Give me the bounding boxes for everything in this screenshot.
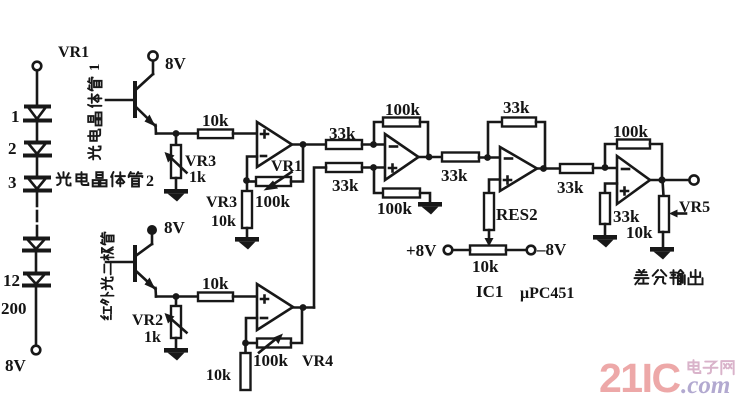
wire inverting input stub: [247, 157, 257, 181]
photodiode D4: [24, 239, 49, 251]
ground: [164, 189, 188, 202]
svg-text:8V: 8V: [5, 356, 27, 375]
svg-text:10k: 10k: [202, 111, 229, 130]
svg-text:VR3: VR3: [206, 194, 237, 211]
node junction: [173, 293, 180, 300]
resistor VR3 10k: [242, 182, 252, 237]
transistor Q2 photodiode input: [106, 225, 157, 297]
svg-text:VR4: VR4: [302, 353, 333, 370]
wire: [362, 143, 385, 146]
svg-text:.com: .com: [681, 372, 730, 399]
wire: [233, 295, 257, 298]
wire output U3: [537, 167, 560, 170]
op-amp U1b: [257, 284, 293, 330]
wire: [479, 156, 500, 159]
svg-text:2: 2: [8, 139, 17, 158]
wire: [362, 166, 385, 169]
resistor 33k upper: [326, 140, 362, 149]
wire output U1b: [293, 306, 314, 309]
svg-text:10k: 10k: [626, 223, 653, 242]
svg-text:VR3: VR3: [185, 153, 216, 170]
wire emitter: [156, 295, 198, 298]
wire output U2: [418, 156, 442, 159]
svg-text:1: 1: [87, 64, 103, 72]
svg-text:10k: 10k: [472, 257, 499, 276]
resistor 10k lower: [241, 345, 251, 390]
node junction: [242, 340, 249, 347]
svg-text:33k: 33k: [329, 124, 356, 143]
ground: [418, 202, 442, 215]
node junction: [300, 141, 307, 148]
svg-text:100k: 100k: [385, 100, 421, 119]
svg-text:33k: 33k: [332, 176, 359, 195]
node junction: [658, 176, 665, 183]
wire: [36, 157, 39, 176]
node junction: [602, 164, 609, 171]
resistor 10k: [198, 293, 233, 302]
terminal bottom-left 8V: [32, 346, 41, 355]
photodiode D3: [25, 178, 50, 191]
svg-text:21IC: 21IC: [599, 355, 680, 401]
label rotated 光电晶体管1: [87, 64, 103, 160]
wire: [36, 122, 39, 141]
resistor 100k to ground U2: [374, 169, 430, 202]
node junction: [540, 165, 547, 172]
wire: [36, 71, 39, 106]
resistor 33k after U3: [560, 164, 593, 173]
node junction: [426, 154, 433, 161]
resistor VR2 1k: [165, 297, 187, 349]
svg-text:1k: 1k: [189, 169, 206, 186]
resistor 33k lower: [326, 163, 362, 172]
svg-text:33k: 33k: [441, 166, 468, 185]
svg-text:2: 2: [146, 173, 154, 190]
svg-text:1: 1: [11, 107, 20, 126]
op-amp U1: [257, 122, 292, 167]
terminal -8V: [527, 246, 536, 255]
resistor 100k feedback U4: [605, 140, 662, 181]
svg-text:100k: 100k: [377, 199, 413, 218]
ground: [235, 237, 259, 250]
ground: [164, 348, 188, 361]
svg-text:8V: 8V: [164, 218, 186, 237]
resistor 33k to ground U4: [600, 184, 617, 236]
svg-text:100k: 100k: [613, 122, 649, 141]
resistor 100k VR4 feedback: [246, 308, 302, 353]
ground: [593, 235, 617, 248]
svg-text:12: 12: [3, 271, 20, 290]
svg-text:+8V: +8V: [406, 241, 437, 260]
resistor VR3 1k: [165, 134, 187, 190]
label 光电晶体管2: [57, 172, 154, 190]
resistor RES2: [484, 180, 500, 247]
label rotated 红外光二极管: [101, 233, 114, 320]
wire output U4: [650, 179, 689, 182]
svg-text:10k: 10k: [211, 213, 236, 230]
svg-text:RES2: RES2: [496, 205, 538, 224]
node junction: [484, 154, 491, 161]
svg-text:100k: 100k: [253, 351, 289, 370]
wire: [593, 167, 617, 170]
svg-text:μPC451: μPC451: [520, 285, 574, 302]
ground: [650, 247, 674, 260]
svg-text:3: 3: [8, 173, 17, 192]
photodiode D1: [25, 107, 50, 121]
svg-text:100k: 100k: [255, 192, 291, 211]
label 差分输出: [634, 270, 702, 285]
svg-text:8V: 8V: [165, 54, 187, 73]
resistor VR5 10k: [659, 180, 686, 247]
svg-text:200: 200: [1, 299, 27, 318]
op-amp U4: [617, 156, 650, 204]
node junction: [370, 141, 377, 148]
terminal output: [689, 175, 698, 184]
potentiometer 10k: [470, 246, 506, 255]
svg-text:33k: 33k: [503, 98, 530, 117]
svg-text:10k: 10k: [206, 367, 231, 384]
svg-text:VR1: VR1: [58, 44, 89, 61]
wire inverting input stub: [246, 318, 257, 343]
svg-text:IC1: IC1: [476, 282, 503, 301]
wire: [35, 287, 38, 346]
terminal +8V: [444, 246, 453, 255]
photodiode D12: [24, 274, 49, 286]
wire: [35, 252, 38, 272]
wire output: [292, 143, 326, 146]
wire: [452, 249, 470, 252]
wire: [233, 132, 257, 135]
node junction: [173, 130, 180, 137]
wire emitter to opamp: [156, 132, 198, 135]
resistor 33k feedback U3: [488, 118, 545, 169]
op-amp U2: [385, 134, 419, 180]
node junction: [370, 164, 377, 171]
wire from lower op-amp output: [314, 168, 326, 308]
resistor 33k after U2: [442, 153, 479, 162]
wire: [506, 249, 527, 252]
resistor 10k: [198, 130, 233, 139]
svg-text:VR2: VR2: [132, 312, 163, 329]
svg-text:VR1: VR1: [271, 158, 302, 175]
svg-text:–8V: –8V: [536, 240, 567, 259]
wire dashed continuation: [36, 192, 39, 237]
resistor 100k feedback U2: [374, 118, 428, 158]
svg-text:10k: 10k: [202, 274, 229, 293]
op-amp U3: [500, 147, 537, 191]
photodiode D2: [25, 143, 50, 156]
terminal top-left: [33, 62, 42, 71]
resistor 100k feedback variable: [247, 145, 303, 191]
node junction: [300, 304, 307, 311]
node junction: [243, 177, 250, 184]
svg-text:33k: 33k: [557, 178, 584, 197]
svg-text:VR5: VR5: [679, 199, 710, 216]
watermark 电子网: [688, 360, 733, 374]
transistor Q1 phototransistor: [106, 51, 158, 133]
svg-text:1k: 1k: [144, 329, 161, 346]
